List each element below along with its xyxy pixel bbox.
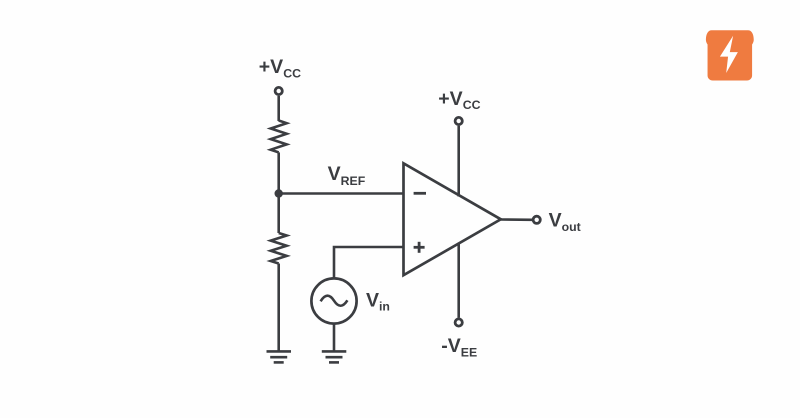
svg-text:-VEE: -VEE [441,335,477,360]
svg-text:Vout: Vout [549,210,581,234]
svg-text:+VCC: +VCC [259,56,301,80]
resistor R2 [271,233,287,264]
ground (divider) [267,351,292,362]
output terminal Vout [533,216,540,223]
power terminal +VCC (divider top) [275,87,282,94]
svg-text:Vin: Vin [366,290,390,314]
svg-text:VREF: VREF [328,163,366,188]
wire: op-amp negative supply [457,243,460,318]
node VREF junction dot [275,189,283,197]
source Vin (AC source circle) [311,278,356,323]
power terminal +VCC (op-amp) [455,117,462,124]
wire: node VREF to op-amp inverting input [279,192,404,195]
logo: CircuitBread toast with lightning bolt [706,30,754,80]
wire: R1 to node VREF [277,152,280,193]
wire: Vin source to ground [333,324,336,352]
op-amp minus symbol [414,192,426,195]
resistor R1 [271,121,287,153]
wire: node VREF to R2 [277,194,280,234]
lightning bolt cutout [720,36,738,73]
wire: op-amp output [501,218,532,221]
svg-text:+VCC: +VCC [438,88,480,112]
wire: op-amp positive supply [457,126,460,197]
power terminal -VEE [455,319,462,326]
wire: R2 to ground [277,264,280,352]
ground (Vin) [322,351,347,362]
sine wave inside Vin [321,296,348,306]
op-amp U1 triangle [404,163,501,275]
wire: +VCC terminal to resistor R1 [277,96,280,121]
wire: Vin source to op-amp non-inverting input (L-shaped) [334,247,404,278]
op-amp plus symbol [414,242,425,253]
